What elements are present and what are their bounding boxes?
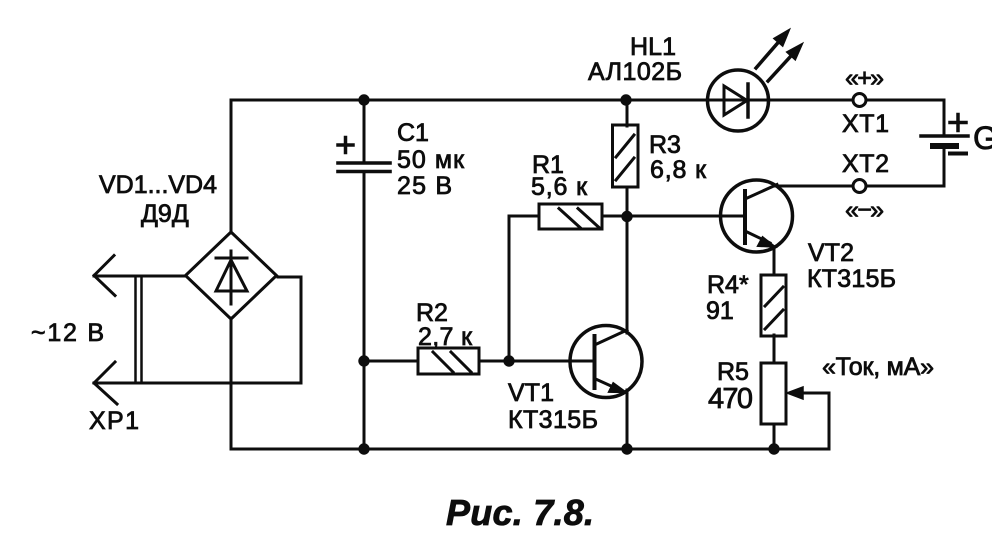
node C1 top: [358, 94, 369, 105]
svg-text:VT2: VT2: [808, 239, 854, 267]
svg-text:G: G: [973, 120, 992, 156]
wire C1 top lead: [363, 100, 366, 162]
node C1 R2: [358, 355, 369, 366]
label 5,6 к: [531, 173, 588, 201]
LED HL1: [708, 30, 803, 131]
svg-text:Д9Д: Д9Д: [141, 200, 189, 228]
svg-text:470: 470: [708, 383, 753, 415]
wire VT1 collector vertical: [626, 217, 629, 333]
label R5: [717, 358, 749, 386]
svg-text:VD1...VD4: VD1...VD4: [99, 171, 217, 199]
resistor R4: [761, 275, 786, 336]
svg-text:R3: R3: [649, 131, 681, 159]
label ~12 В: [31, 319, 104, 347]
svg-text:2,7 к: 2,7 к: [418, 323, 473, 351]
label HL1: [630, 33, 676, 61]
svg-text:Рис. 7.8.: Рис. 7.8.: [446, 492, 594, 533]
transistor VT2: [721, 180, 793, 252]
label R1: [532, 151, 564, 179]
resistor R3: [613, 125, 639, 187]
label «+»: [845, 64, 884, 92]
svg-text:5,6 к: 5,6 к: [531, 173, 588, 201]
wire XP1 upper prong: [94, 275, 186, 278]
svg-text:HL1: HL1: [630, 33, 676, 61]
label 25 В: [397, 172, 452, 200]
svg-text:~12 В: ~12 В: [31, 319, 104, 347]
wire R2 to VT1 base: [479, 360, 593, 363]
wire bridge top vertical: [230, 100, 233, 233]
node C1 bottom: [358, 443, 369, 454]
label АЛ102Б: [588, 58, 682, 86]
svg-text:6,8 к: 6,8 к: [650, 156, 707, 184]
wire XP1 lower prong: [94, 277, 301, 383]
wire VT2 emitter to R4: [773, 248, 776, 275]
capacitor C1: [338, 138, 390, 172]
label 91: [706, 297, 734, 325]
wire battery minus to XT2: [867, 146, 944, 186]
wire C1 bottom lead: [363, 172, 366, 449]
wire bottom rail: [231, 448, 829, 451]
label VT2: [808, 239, 854, 267]
label Ток мА: [822, 353, 934, 381]
svg-text:R4*: R4*: [707, 271, 749, 299]
svg-text:VT1: VT1: [508, 379, 554, 407]
svg-text:КТ315Б: КТ315Б: [807, 265, 896, 293]
svg-text:XT1: XT1: [842, 110, 889, 138]
svg-text:XP1: XP1: [89, 407, 139, 435]
svg-text:91: 91: [706, 297, 734, 325]
label R2: [416, 299, 448, 327]
label XP1: [89, 407, 139, 435]
label Д9Д: [141, 200, 189, 228]
terminal XT1: [853, 94, 866, 107]
svg-text:КТ315Б: КТ315Б: [508, 406, 598, 434]
svg-text:R5: R5: [717, 358, 749, 386]
wire bridge bottom vertical: [230, 318, 233, 449]
node R1 R2 VT1 base: [503, 355, 514, 366]
label 470: [708, 383, 753, 415]
label КТ315Б VT1: [508, 406, 598, 434]
battery G: [921, 115, 968, 154]
label R3: [649, 131, 681, 159]
label 6,8 к: [650, 156, 707, 184]
label R4*: [707, 271, 749, 299]
bridge rectifier VD1...VD4: [186, 232, 277, 319]
resistor R5 rheostat: [761, 363, 786, 424]
svg-text:«+»: «+»: [845, 64, 884, 92]
svg-text:«Ток, мА»: «Ток, мА»: [822, 353, 934, 381]
resistor R1: [539, 204, 602, 229]
caption Рис. 7.8.: [446, 492, 594, 533]
label КТ315Б VT2: [807, 265, 896, 293]
wire R4 to R5: [773, 335, 776, 363]
label C1: [397, 119, 429, 147]
svg-text:АЛ102Б: АЛ102Б: [588, 58, 682, 86]
wire top rail XT1 to right corner: [866, 100, 944, 136]
node HL1 branch: [620, 94, 631, 105]
label 50 мк: [397, 146, 465, 174]
wire C1 node to R2: [364, 360, 418, 363]
svg-text:25 В: 25 В: [397, 172, 452, 200]
wire R1 to VT2 base: [602, 215, 745, 218]
wire R5 bottom lead: [773, 424, 776, 449]
wire R1 left lead down to R2 node: [509, 216, 539, 361]
label XT2: [842, 150, 889, 178]
terminal XT2: [853, 180, 866, 193]
label VD1...VD4: [99, 171, 217, 199]
wire R3 top lead: [626, 100, 629, 126]
label «−»: [845, 196, 884, 224]
resistor R2: [418, 348, 479, 374]
label XT1: [842, 110, 889, 138]
wire XT2 to VT2 collector: [775, 185, 852, 188]
svg-text:«−»: «−»: [845, 196, 884, 224]
wire R3 bottom lead to node: [626, 187, 629, 217]
wire R5 wiper tap: [787, 387, 829, 449]
wire top rail from bridge to XT1: [231, 99, 853, 102]
svg-text:C1: C1: [397, 119, 429, 147]
label VT1: [508, 379, 554, 407]
label G: [973, 120, 992, 156]
label 2,7 к: [418, 323, 473, 351]
node R3 VT2 base: [621, 211, 632, 222]
node VT1 emitter rail: [621, 443, 632, 454]
diode symbol inside bridge: [216, 251, 247, 304]
connector XP1: [94, 256, 142, 405]
svg-text:50 мк: 50 мк: [397, 146, 465, 174]
wire VT1 emitter vertical: [626, 390, 629, 449]
svg-text:XT2: XT2: [842, 150, 889, 178]
transistor VT1: [570, 326, 642, 398]
node R5 bottom rail: [768, 443, 779, 454]
